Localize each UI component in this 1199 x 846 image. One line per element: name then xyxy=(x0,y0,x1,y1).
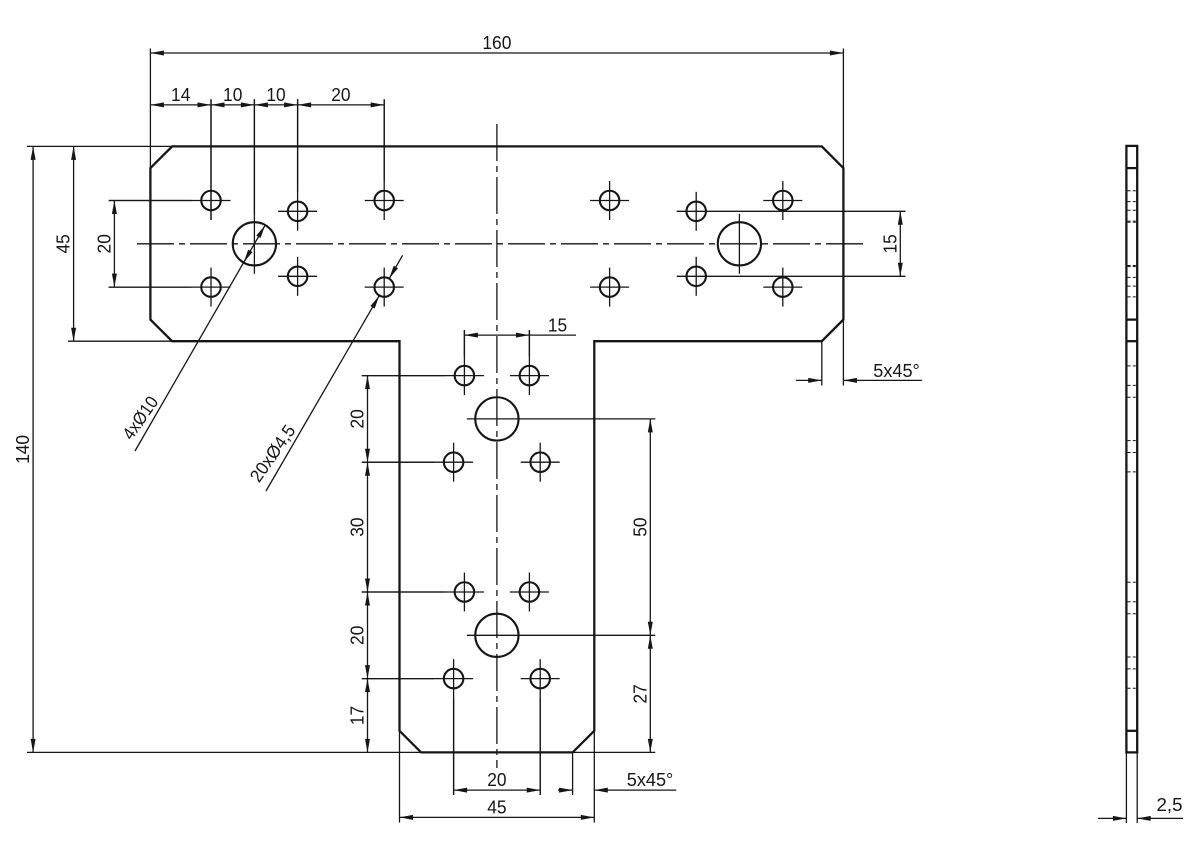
dimension 15 (middle hole rows right) xyxy=(880,211,903,276)
hole Ø4.5 stem rowB left xyxy=(362,443,473,482)
dimensions 20,30,20,17 (stem hole rows) xyxy=(348,376,445,753)
svg-text:14: 14 xyxy=(171,85,190,105)
hole Ø4.5 stem rowC left xyxy=(362,573,484,612)
svg-text:140: 140 xyxy=(13,435,33,464)
hole Ø4.5 top-left b xyxy=(109,268,231,307)
dimension 15 (stem top holes) xyxy=(464,316,576,357)
hole Ø4.5 mid-right b xyxy=(677,257,906,296)
hole Ø4.5 inner-left b xyxy=(365,268,404,307)
svg-text:15: 15 xyxy=(548,316,567,336)
dimensions 50,27 (big stem holes) xyxy=(630,419,653,753)
leader 4xd10 (big holes) xyxy=(118,225,265,451)
svg-text:30: 30 xyxy=(348,517,368,536)
dimension 5x45 chamfer (stem bottom) xyxy=(558,752,676,795)
hole Ø4.5 mid-left a xyxy=(278,99,317,231)
svg-text:15: 15 xyxy=(880,234,900,253)
svg-text:45: 45 xyxy=(54,234,74,253)
dimensions 14,10,10,20 (hole columns) xyxy=(150,85,384,220)
hole Ø10 left xyxy=(233,99,276,273)
leader 20xd4,5 (small holes) xyxy=(246,255,403,491)
svg-text:5x45°: 5x45° xyxy=(627,770,674,790)
dimension 20 (hole rows left) xyxy=(94,201,191,288)
hole Ø10 stem lower xyxy=(467,614,655,657)
svg-text:20: 20 xyxy=(348,626,368,645)
hole Ø4.5 mid-right a xyxy=(677,192,906,231)
hole Ø4.5 stem rowC right xyxy=(510,573,549,612)
dimension 5x45 chamfer (top bar) xyxy=(796,320,922,386)
hole Ø4.5 stem rowD right xyxy=(521,659,560,795)
svg-text:20: 20 xyxy=(94,234,114,253)
dimension 140 (overall height) xyxy=(13,146,655,752)
dimension 45 (top bar height) xyxy=(54,146,172,341)
hole Ø10 right xyxy=(718,214,761,274)
dimension 20 (bottom holes) xyxy=(454,698,541,795)
hole Ø4.5 inner-left a xyxy=(365,99,404,220)
hole Ø4.5 top-right a xyxy=(763,181,802,220)
hole Ø4.5 top-left a xyxy=(109,99,231,220)
hole Ø4.5 top-right b xyxy=(763,268,802,307)
svg-text:27: 27 xyxy=(630,684,650,703)
svg-text:10: 10 xyxy=(266,85,285,105)
svg-text:2,5: 2,5 xyxy=(1157,795,1183,815)
T-plate outline (front view) xyxy=(150,146,843,752)
svg-text:10: 10 xyxy=(223,85,242,105)
hole Ø4.5 inner-right a xyxy=(590,181,629,220)
hole Ø4.5 inner-right b xyxy=(590,268,629,307)
hole Ø4.5 stem rowD left xyxy=(362,659,473,795)
svg-text:50: 50 xyxy=(630,517,650,536)
hole Ø4.5 stem rowB right xyxy=(521,443,560,482)
side view plate (thickness 2.5) xyxy=(1126,146,1137,753)
svg-text:20: 20 xyxy=(487,770,506,790)
hole Ø4.5 stem rowA right xyxy=(510,330,549,395)
svg-text:20: 20 xyxy=(348,409,368,428)
svg-text:17: 17 xyxy=(348,706,368,725)
horizontal center line xyxy=(137,243,864,245)
dimension 45 (stem width) xyxy=(400,731,595,823)
svg-text:20: 20 xyxy=(331,85,350,105)
svg-text:45: 45 xyxy=(487,797,506,817)
dimension 2,5 (plate thickness) xyxy=(1098,752,1183,823)
hole Ø4.5 mid-left b xyxy=(278,257,317,296)
dimension 160 (overall width) xyxy=(150,33,843,168)
svg-text:5x45°: 5x45° xyxy=(873,361,920,381)
hole Ø4.5 stem rowA left xyxy=(362,330,484,395)
svg-text:160: 160 xyxy=(482,33,511,53)
side view hidden hole lines xyxy=(1128,191,1136,689)
hole Ø10 stem upper xyxy=(467,397,655,440)
vertical center line xyxy=(496,124,498,768)
